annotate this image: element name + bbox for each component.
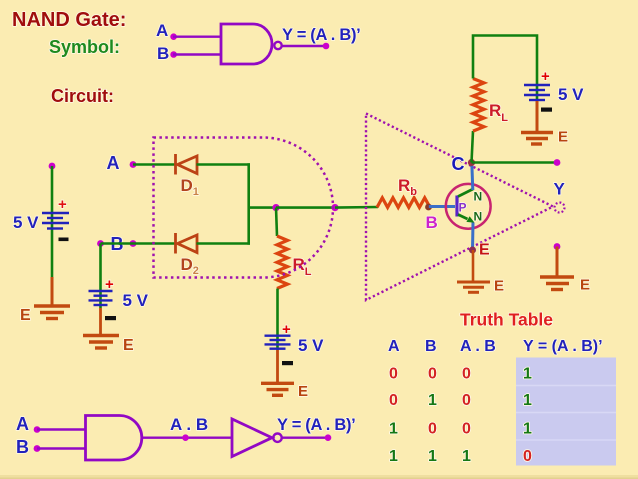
svg-text:E: E <box>494 278 504 295</box>
wire node C to collector load <box>472 131 474 163</box>
node (output ground top) <box>554 243 561 250</box>
wire node E to ground <box>472 250 475 281</box>
svg-text:P: P <box>459 201 467 215</box>
wire battery B3 to ground <box>276 350 279 382</box>
transistor collector lead <box>458 189 473 197</box>
dashed AND-gate region (diode logic) <box>154 138 334 278</box>
svg-text:N: N <box>474 210 483 224</box>
node P (diode junction) <box>272 204 279 211</box>
wire NOT output <box>282 437 328 439</box>
svg-text:5 V: 5 V <box>123 291 149 310</box>
wire bus to node P <box>249 206 276 209</box>
ground E (output reference) <box>540 277 574 290</box>
svg-text:0: 0 <box>428 421 437 438</box>
wire battery B1 to ground <box>51 277 54 305</box>
svg-text:N: N <box>474 190 483 204</box>
svg-text:0: 0 <box>428 366 437 383</box>
svg-text:Y: Y <box>554 180 566 199</box>
wire NAND symbol output <box>282 45 326 47</box>
resistor Rb <box>377 198 430 208</box>
transistor emitter lead with arrow <box>458 215 468 220</box>
wire output ground <box>556 247 559 277</box>
svg-text:E: E <box>298 383 308 400</box>
wire battery B4 to ground <box>536 101 539 131</box>
dashed NOT-gate region (transistor inverter) <box>366 114 553 301</box>
svg-text:0: 0 <box>389 366 398 383</box>
wire B to diode D2 <box>101 242 177 245</box>
svg-text:1: 1 <box>523 392 532 409</box>
svg-text:1: 1 <box>389 448 398 465</box>
wire B to AND gate <box>37 447 86 449</box>
svg-text:E: E <box>20 307 31 324</box>
wire diode D2 to common node <box>197 242 251 245</box>
wire A to diode D1 <box>133 163 176 166</box>
wire diode D1 to common node <box>197 163 251 166</box>
svg-text:+: + <box>58 196 67 213</box>
ground E (battery B1) <box>34 306 70 319</box>
node base (Rb to transistor) <box>425 204 432 211</box>
svg-text:Truth Table: Truth Table <box>460 310 553 330</box>
NOT gate U3 <box>232 419 272 457</box>
svg-text:E: E <box>580 277 590 294</box>
svg-text:Y = (A . B)’: Y = (A . B)’ <box>523 338 603 355</box>
dashed NOT bubble <box>555 203 565 213</box>
svg-text:A: A <box>156 21 168 40</box>
node Y (bottom) <box>325 434 332 441</box>
wire node P to resistor RL (pulldown) <box>276 208 277 236</box>
svg-text:A: A <box>16 414 29 434</box>
svg-text:NAND Gate:: NAND Gate: <box>12 9 126 31</box>
svg-text:A: A <box>388 338 400 355</box>
svg-text:1: 1 <box>428 448 437 465</box>
ground E (battery B3) <box>261 383 294 395</box>
ground E (battery B2) <box>83 336 119 349</box>
truth table highlight column <box>516 358 616 466</box>
diode D2 <box>176 233 198 254</box>
svg-text:+: + <box>541 68 550 85</box>
wire base <box>429 205 455 208</box>
wire diode bus vertical <box>247 163 250 245</box>
svg-text:1: 1 <box>462 448 471 465</box>
node E <box>469 247 476 254</box>
transistor Q1 body <box>446 184 491 229</box>
wire A to AND gate <box>37 428 86 430</box>
svg-text:0: 0 <box>462 366 471 383</box>
node Y (symbol output) <box>323 43 330 50</box>
svg-text:Y = (A . B)’: Y = (A . B)’ <box>282 26 360 44</box>
svg-text:B: B <box>16 437 29 457</box>
svg-text:Symbol:: Symbol: <box>49 37 120 57</box>
svg-text:5 V: 5 V <box>298 336 324 355</box>
wire collector to node C <box>472 163 473 190</box>
transistor base bar <box>455 196 458 217</box>
svg-text:1: 1 <box>523 366 532 383</box>
svg-text:1: 1 <box>389 421 398 438</box>
svg-text:0: 0 <box>462 421 471 438</box>
ground E (emitter) <box>457 282 490 292</box>
wire battery B2 to ground <box>99 308 102 334</box>
node B (circuit input) <box>97 240 104 247</box>
wire A to NAND symbol <box>173 36 221 38</box>
node A.B <box>182 434 189 441</box>
svg-text:1: 1 <box>428 392 437 409</box>
wire AND-output node to Rb <box>335 206 378 209</box>
svg-text:5 V: 5 V <box>13 213 39 232</box>
wire AND output <box>142 437 232 439</box>
AND gate U2 <box>86 416 142 461</box>
wire B to NAND symbol <box>173 53 221 55</box>
wire node P to AND-output node <box>276 206 335 209</box>
wire emitter to node E <box>471 223 475 251</box>
svg-text:A . B: A . B <box>170 415 208 434</box>
node C <box>468 159 475 166</box>
node (dashed AND output) <box>331 204 338 211</box>
svg-text:C: C <box>452 154 465 174</box>
svg-text:B: B <box>425 338 437 355</box>
resistor RL (collector load) <box>473 79 484 132</box>
svg-text:E: E <box>123 337 134 354</box>
diode D1 <box>176 154 198 175</box>
resistor RL (pulldown) <box>277 236 288 289</box>
NAND gate symbol U1 <box>221 24 272 64</box>
svg-text:A: A <box>107 153 120 173</box>
svg-text:E: E <box>558 129 568 146</box>
svg-text:0: 0 <box>462 392 471 409</box>
svg-text:Circuit:: Circuit: <box>51 86 114 106</box>
svg-text:5 V: 5 V <box>558 85 584 104</box>
svg-text:A . B: A . B <box>460 338 496 355</box>
svg-text:E: E <box>479 242 490 259</box>
wire resistor RL to battery B3 <box>276 289 279 351</box>
wire node C to output Y <box>472 161 558 164</box>
wire RL top <box>473 36 537 102</box>
node (output end) <box>554 159 561 166</box>
svg-text:1: 1 <box>523 421 532 438</box>
battery B1 5V (input A source) <box>49 163 56 170</box>
svg-text:Y = (A . B)’: Y = (A . B)’ <box>277 416 355 434</box>
svg-text:0: 0 <box>523 448 532 465</box>
svg-text:B: B <box>426 213 438 232</box>
ground E (battery B4) <box>521 133 553 145</box>
battery B2 5V (input B source) <box>99 244 102 309</box>
svg-text:0: 0 <box>389 392 398 409</box>
svg-text:B: B <box>157 44 169 63</box>
